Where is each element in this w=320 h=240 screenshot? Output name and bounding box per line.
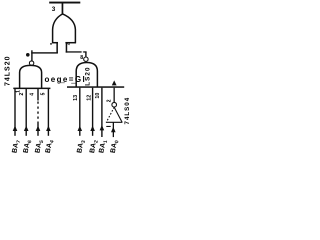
arrow BA3 — [78, 126, 83, 132]
U3 pin 1 label — [106, 126, 110, 127]
node OUT top rail wire — [49, 2, 80, 4]
wire input BA0 — [113, 122, 114, 137]
svg-text:74LS20: 74LS20 — [5, 55, 12, 86]
U2 bottom edge — [67, 86, 124, 88]
wire down to U2 bubble — [85, 52, 86, 57]
op U2 body — [76, 63, 97, 88]
wire down to U1 bubble — [31, 52, 32, 61]
gate G3 (2-input OR-shaped gate, pointing up) — [52, 14, 76, 43]
scan gap on wire — [82, 51, 84, 53]
svg-text:10: 10 — [95, 93, 101, 99]
svg-text:1: 1 — [15, 90, 21, 93]
wire input BA1 — [101, 88, 102, 137]
svg-text:3: 3 — [52, 6, 56, 13]
svg-text:13: 13 — [73, 95, 79, 101]
U1 bottom edge — [13, 88, 50, 90]
svg-text:74LS04: 74LS04 — [124, 97, 131, 125]
wire G3 left input down-left — [56, 43, 58, 53]
svg-text:4: 4 — [30, 93, 36, 96]
svg-text:2: 2 — [19, 93, 25, 96]
arrow BA7 — [13, 126, 18, 132]
arrow BA0 — [111, 127, 116, 133]
wire input BA7 — [14, 89, 15, 136]
op U2: 4-input NAND LS20 (right) output bubble — [84, 57, 88, 61]
arrow U3 output into U2 — [112, 80, 117, 85]
corner nub — [31, 50, 32, 52]
svg-text:5: 5 — [40, 92, 46, 95]
svg-text:oege=Gl: oege=Gl — [45, 75, 87, 84]
wire input BA3 — [79, 88, 80, 136]
arrow BA1 — [100, 125, 105, 130]
wire G3 right input down — [66, 43, 68, 53]
arrow BA6 — [24, 126, 29, 132]
svg-text:2: 2 — [106, 99, 112, 102]
svg-text:12: 12 — [87, 95, 93, 101]
op U3: inverter 74LS04 bubble — [112, 102, 117, 107]
wire input BA4 — [48, 89, 49, 136]
op U1: 4-input NAND 74LS20 (left) output bubble — [29, 61, 33, 65]
wire input BA6 — [26, 89, 27, 136]
wire horizontal to U2 output — [66, 51, 87, 52]
arrow BA4 — [46, 126, 51, 132]
svg-text:LS20: LS20 — [85, 66, 92, 85]
arrow BA5 — [36, 126, 41, 132]
wire U3 output up to U2 edge — [114, 88, 115, 103]
pin 1 label gate G3 — [50, 43, 52, 44]
wire gate G3 output to top rail — [62, 3, 64, 15]
wire input BA2 — [92, 88, 93, 136]
op U1 body — [20, 65, 42, 88]
op U3 triangle — [106, 107, 123, 122]
wire horizontal to U1 output — [31, 52, 58, 53]
arrow BA2 — [90, 126, 95, 132]
junction dot — [26, 53, 30, 57]
svg-text:8: 8 — [80, 55, 83, 61]
watermark gray text — [45, 75, 87, 84]
wire input BA5 (dashed in scan) — [37, 89, 38, 101]
